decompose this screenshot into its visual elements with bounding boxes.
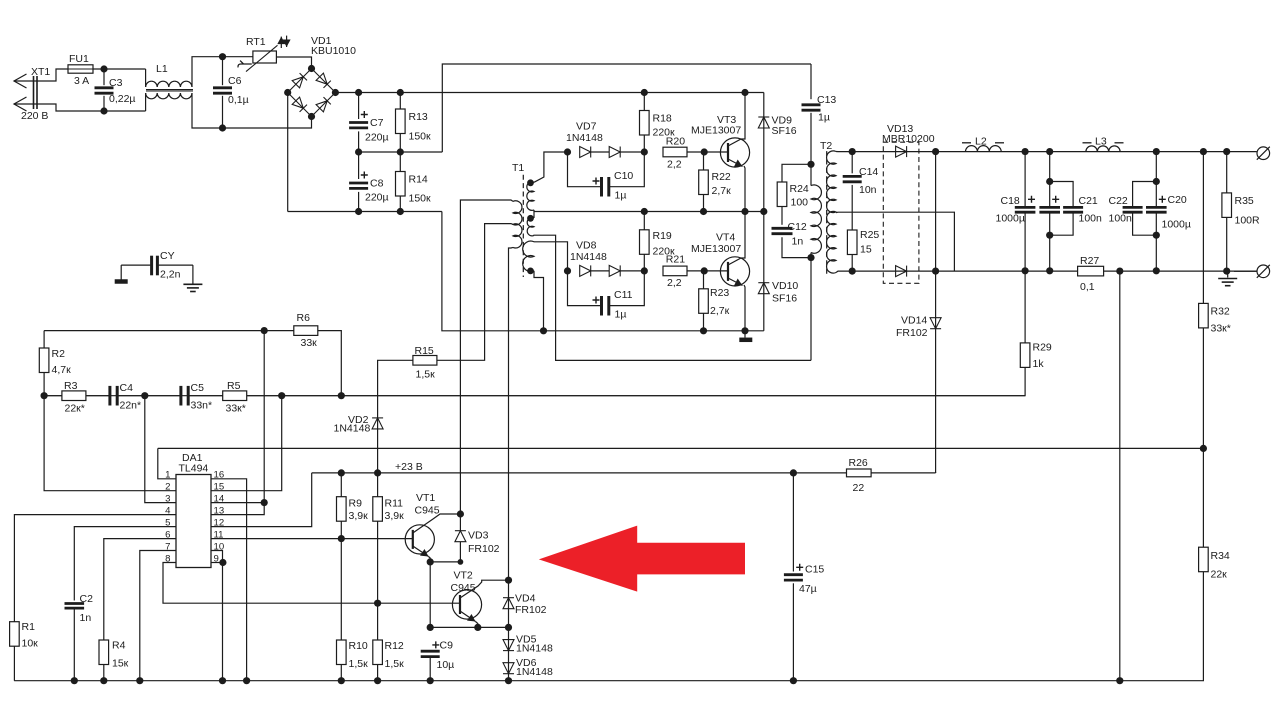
wire pin11 to VT1 base xyxy=(211,538,412,540)
wire VT2 emitter arrow xyxy=(460,611,476,622)
earth ground output xyxy=(1218,279,1237,286)
junction C4 C5 pin3 xyxy=(141,392,148,399)
wire pin13 xyxy=(211,503,264,515)
svg-text:1k: 1k xyxy=(1033,358,1045,370)
wire ground stub xyxy=(744,331,746,338)
svg-text:VD4: VD4 xyxy=(515,593,536,605)
wire pin14 xyxy=(211,502,264,504)
wire R9 bottom lead xyxy=(340,521,342,538)
diode VD8a xyxy=(580,265,591,276)
junction R22 bottom xyxy=(700,208,707,215)
junction C14 top xyxy=(849,148,856,155)
wire node to C5 xyxy=(145,395,181,397)
svg-text:RT1: RT1 xyxy=(246,36,266,48)
svg-text:C7: C7 xyxy=(370,117,384,129)
transistor VT3 xyxy=(720,138,749,167)
wire C13 bottom lead xyxy=(810,113,812,165)
capacitor C2 xyxy=(65,604,85,609)
svg-text:L1: L1 xyxy=(156,63,168,75)
svg-text:R4: R4 xyxy=(112,640,126,652)
transistor VT4 xyxy=(720,257,749,286)
svg-text:R2: R2 xyxy=(52,348,66,360)
junction VD13 cathodes bottom xyxy=(932,268,939,275)
connector XT1 bars xyxy=(34,76,38,109)
svg-text:C6: C6 xyxy=(228,75,242,87)
wire pin16 to ground xyxy=(211,479,247,681)
junction R27 sense xyxy=(1116,268,1123,275)
svg-text:SF16: SF16 xyxy=(772,293,797,305)
wire RT1 to bridge top xyxy=(276,57,311,69)
diode VD5 xyxy=(503,640,514,651)
svg-text:1µ: 1µ xyxy=(615,309,627,321)
svg-text:FU1: FU1 xyxy=(69,53,89,65)
junction C19 top xyxy=(1046,148,1053,155)
svg-text:SF16: SF16 xyxy=(772,125,797,137)
diode VD14 xyxy=(930,318,941,329)
thermistor RT1 diagonal xyxy=(246,45,278,71)
svg-text:100R: 100R xyxy=(1235,215,1261,227)
wire VT1 collector xyxy=(413,514,461,533)
wire emitter node rail xyxy=(430,626,508,628)
svg-text:2: 2 xyxy=(165,482,170,493)
wire VD3 bottom lead xyxy=(430,542,460,562)
wire R24 top xyxy=(782,164,811,182)
junction bridge top xyxy=(308,65,315,72)
junction R4 ground xyxy=(100,677,107,684)
wire pin12 to +23V xyxy=(211,473,312,527)
earth ground CY right xyxy=(183,284,202,291)
wire between VD8 diodes xyxy=(591,270,610,272)
wire T1 tap rail y211 xyxy=(534,210,764,212)
capacitor C18 xyxy=(1015,207,1036,212)
svg-text:22к: 22к xyxy=(1211,569,1228,581)
plus sign C15 xyxy=(796,564,803,571)
svg-text:R24: R24 xyxy=(790,183,809,195)
resistor R20 xyxy=(663,147,687,157)
capacitor C15 xyxy=(784,575,803,580)
svg-text:10n: 10n xyxy=(859,184,877,196)
svg-text:C12: C12 xyxy=(788,221,807,233)
junction R32 top xyxy=(1200,148,1207,155)
svg-text:R18: R18 xyxy=(653,113,672,125)
inductor T1 winding B xyxy=(527,218,534,236)
svg-text:XT1: XT1 xyxy=(31,66,50,78)
junction VT3 emitter VT4 collector xyxy=(741,208,748,215)
wire T1 C bottom to ground rail xyxy=(534,271,544,331)
inductor T1 winding C xyxy=(523,241,534,271)
junction R26 C15 xyxy=(790,469,797,476)
wire R2 top lead xyxy=(43,331,45,348)
svg-text:1n: 1n xyxy=(792,236,804,248)
resistor R19 xyxy=(640,230,650,255)
svg-text:R11: R11 xyxy=(385,498,404,510)
svg-text:R26: R26 xyxy=(849,457,868,469)
core T2 dashed xyxy=(826,151,828,274)
svg-text:R22: R22 xyxy=(712,171,731,183)
resistor R11 xyxy=(373,497,383,522)
svg-text:T1: T1 xyxy=(512,162,524,174)
wire pin8 to VT2 base xyxy=(163,563,460,604)
wire R19 top lead xyxy=(643,212,645,230)
core line L1 a xyxy=(146,89,193,91)
wire R12 top lead xyxy=(377,603,379,640)
svg-text:VD7: VD7 xyxy=(576,121,597,133)
svg-text:33к*: 33к* xyxy=(1211,323,1231,335)
capacitor CY xyxy=(152,256,158,276)
junction feedback divider xyxy=(1200,445,1207,452)
junction C20 top xyxy=(1153,148,1160,155)
capacitor C14 xyxy=(843,176,862,181)
svg-text:2,7к: 2,7к xyxy=(712,185,732,197)
wire T1 primary tap to R15 xyxy=(437,224,513,361)
thermistor RT1 t-mark xyxy=(238,61,252,68)
wire C7 top lead xyxy=(358,93,360,120)
capacitor C9 xyxy=(421,651,440,656)
junction R11 R12 VT2 base xyxy=(374,600,381,607)
svg-text:10µ: 10µ xyxy=(437,659,455,671)
junction bridge right xyxy=(332,89,339,96)
junction pin16 ground xyxy=(243,677,250,684)
svg-text:3 A: 3 A xyxy=(74,75,89,87)
svg-text:2,2: 2,2 xyxy=(667,277,682,289)
core T1 dashed xyxy=(522,175,524,277)
wire output plus rail xyxy=(836,151,1257,153)
svg-text:R25: R25 xyxy=(860,229,879,241)
wire VT3 base lead xyxy=(704,151,728,153)
svg-text:L3: L3 xyxy=(1095,136,1107,148)
wire VD4 VD5 VD6 branch xyxy=(508,580,510,681)
wire C21 top bracket xyxy=(1050,182,1073,207)
resistor R14 xyxy=(396,172,406,197)
wire VT3 collector xyxy=(728,93,745,147)
wire XT1 top to FU1 xyxy=(14,69,68,81)
diode VD8b xyxy=(609,265,620,276)
junction VT3 collector rail xyxy=(741,89,748,96)
svg-text:13: 13 xyxy=(214,506,225,517)
wire C14 top lead xyxy=(851,152,853,174)
svg-text:C20: C20 xyxy=(1168,194,1187,206)
bridge diode VD1b xyxy=(316,73,331,88)
resistor R25 xyxy=(847,230,857,255)
svg-text:R32: R32 xyxy=(1211,306,1230,318)
inductor L1 top winding xyxy=(146,81,192,87)
wire R2 bottom lead xyxy=(43,373,45,396)
svg-text:33к*: 33к* xyxy=(226,403,246,415)
core mark L2 right xyxy=(995,142,1004,144)
svg-text:C15: C15 xyxy=(805,564,824,576)
wire CY left xyxy=(121,264,150,266)
wire T1 primary bottom to VT2 collector node xyxy=(509,247,514,580)
junction R35 bottom xyxy=(1223,268,1230,275)
wire pin4 to R1 xyxy=(14,515,176,622)
wire C22 top bracket xyxy=(1133,182,1157,207)
wire VT1 emitter down xyxy=(429,557,431,562)
inductor T2 secondary xyxy=(827,151,836,273)
connector XT1 arrows xyxy=(14,74,27,111)
resistor R18 xyxy=(640,111,650,136)
svg-text:22: 22 xyxy=(853,482,865,494)
svg-text:T2: T2 xyxy=(820,140,832,152)
capacitor C6 xyxy=(213,88,232,93)
capacitor C13 xyxy=(802,105,821,110)
junction C22 bottom xyxy=(1153,232,1160,239)
wire VD13 cathode link xyxy=(935,152,937,272)
wire R22 top lead xyxy=(703,152,705,170)
diode VD10 xyxy=(758,283,769,294)
junction R35 top xyxy=(1223,148,1230,155)
capacitor C7 xyxy=(349,123,368,128)
svg-text:C4: C4 xyxy=(120,382,134,394)
wire output minus rail right xyxy=(1104,270,1257,272)
wire R11 top lead xyxy=(377,473,379,497)
resistor R3 xyxy=(62,391,86,401)
svg-text:1N4148: 1N4148 xyxy=(570,251,607,263)
svg-text:R6: R6 xyxy=(297,312,311,324)
core mark L3 left xyxy=(1083,142,1092,144)
svg-text:R23: R23 xyxy=(710,287,729,299)
phasing dot T1 A xyxy=(527,179,534,186)
wire ground stub R35 xyxy=(1227,271,1229,277)
wire R13 top lead xyxy=(399,93,401,110)
wire output minus rail left xyxy=(836,271,1078,272)
svg-text:R15: R15 xyxy=(415,345,434,357)
wire R15 to VD2 to +23V xyxy=(378,360,413,473)
svg-text:R21: R21 xyxy=(666,254,685,266)
junction R14 bottom xyxy=(397,208,404,215)
svg-text:1N4148: 1N4148 xyxy=(516,643,553,655)
junction C7 top xyxy=(355,89,362,96)
capacitor C4 xyxy=(110,386,117,406)
resistor R10 xyxy=(337,640,347,665)
core line L1 b xyxy=(146,90,193,92)
wire VD7 to R20 node xyxy=(620,151,644,153)
wire between VD7 diodes xyxy=(591,151,610,153)
svg-text:C8: C8 xyxy=(370,178,384,190)
junction C9 top xyxy=(427,624,434,631)
wire pin5 to C2 xyxy=(74,527,176,601)
resistor R32 xyxy=(1199,303,1209,328)
svg-text:R29: R29 xyxy=(1033,342,1052,354)
junction T1 return on ground rail xyxy=(540,327,547,334)
wire R24 to C12 xyxy=(781,207,783,225)
svg-text:1N4148: 1N4148 xyxy=(566,132,603,144)
wire R5 right xyxy=(247,395,342,397)
junction C8 bottom xyxy=(355,208,362,215)
wire C7 bottom lead xyxy=(358,131,360,152)
wire R20 to VT3 base xyxy=(687,151,704,153)
wire C19 top lead xyxy=(1049,152,1051,207)
wire C21 bottom bracket xyxy=(1050,213,1073,235)
wire C22 bottom bracket xyxy=(1133,213,1157,235)
fuse FU1 xyxy=(68,65,93,73)
wire FU1 to L1 top xyxy=(93,68,146,70)
svg-text:2,7к: 2,7к xyxy=(710,305,730,317)
wire through fuse FU1 xyxy=(68,68,93,70)
wire pin9 to ground xyxy=(222,563,224,681)
wire to R6 xyxy=(264,330,294,332)
svg-text:C945: C945 xyxy=(451,582,476,594)
junction C21 top xyxy=(1046,178,1053,185)
chassis ground primary xyxy=(739,338,752,343)
wire R14 top lead xyxy=(399,152,401,172)
junction C21 bottom xyxy=(1046,232,1053,239)
svg-text:C13: C13 xyxy=(817,94,836,106)
wire VT1 emitter arrow xyxy=(413,546,429,557)
IC DA1 TL494 body xyxy=(176,475,211,568)
junction VT3 base xyxy=(701,148,708,155)
svg-text:R19: R19 xyxy=(653,230,672,242)
resistor R22 xyxy=(699,170,709,195)
wire R11 bottom lead xyxy=(377,521,379,603)
wire VT3 emitter down xyxy=(744,166,745,212)
resistor R15 xyxy=(413,356,437,366)
wire R35 top lead xyxy=(1226,152,1228,193)
svg-text:1,5к: 1,5к xyxy=(385,658,405,670)
wire XT1 bottom rail xyxy=(14,104,146,111)
junction bridge left xyxy=(284,89,291,96)
bridge VD1 diamond xyxy=(288,69,336,117)
wire pin1 to feedback rail xyxy=(158,448,176,478)
svg-text:3: 3 xyxy=(165,494,170,505)
wire VT4 collector xyxy=(728,212,745,266)
svg-text:C945: C945 xyxy=(415,505,440,517)
red arrow annotation xyxy=(539,526,745,592)
wire VD8 to R21 node xyxy=(620,270,644,272)
junction C2 ground xyxy=(71,677,78,684)
svg-text:VD3: VD3 xyxy=(468,530,489,542)
junction VT1 emitter xyxy=(427,558,434,565)
bridge diode VD1d xyxy=(316,97,331,112)
resistor R4 xyxy=(99,640,109,665)
svg-text:22к*: 22к* xyxy=(65,403,85,415)
junction pin9 xyxy=(219,559,226,566)
svg-text:10к: 10к xyxy=(22,638,39,650)
svg-text:1n: 1n xyxy=(80,612,92,624)
junction VD6 ground xyxy=(505,677,512,684)
resistor R2 xyxy=(39,348,49,373)
diode VD13b xyxy=(896,266,907,277)
wire R22 bottom lead xyxy=(703,195,705,212)
svg-text:C9: C9 xyxy=(440,640,454,652)
junction VT2 emitter xyxy=(474,624,481,631)
inductor T2 primary xyxy=(811,185,821,253)
svg-text:1µ: 1µ xyxy=(818,112,830,124)
svg-text:220µ: 220µ xyxy=(365,192,389,204)
wire VT2 collector xyxy=(460,580,509,598)
resistor R1 xyxy=(10,622,20,647)
wire C18 bottom lead xyxy=(1024,213,1026,271)
wire pin9 xyxy=(211,562,223,564)
wire VT2 emitter down xyxy=(476,622,478,628)
junction bridge bottom xyxy=(308,113,315,120)
junction R9 R10 pin11 xyxy=(338,535,345,542)
wire primary ground rail y330 xyxy=(442,212,764,331)
wire C15 bottom lead xyxy=(792,583,794,680)
wire bottom rail xyxy=(14,572,1203,681)
diode VD4 xyxy=(503,598,514,609)
bridge diode VD1c xyxy=(292,97,307,112)
svg-text:C10: C10 xyxy=(614,170,633,182)
wire R29 top branch xyxy=(1024,271,1026,343)
wire R35 bottom lead xyxy=(1226,217,1228,271)
capacitor C11 plates xyxy=(602,296,609,316)
wire C8 bottom lead xyxy=(358,192,360,212)
wire R12 bottom lead xyxy=(377,665,379,681)
inductor L1 bottom winding xyxy=(146,93,192,99)
svg-text:100n: 100n xyxy=(1109,213,1133,225)
junction VD2 R11 xyxy=(374,469,381,476)
plus sign C18 xyxy=(1028,196,1035,203)
wire C2 bottom lead xyxy=(73,608,75,681)
junction R12 ground xyxy=(374,677,381,684)
junction VD4 VD5 xyxy=(505,624,512,631)
svg-text:R5: R5 xyxy=(227,380,241,392)
svg-text:15к: 15к xyxy=(112,658,129,670)
svg-text:3,9к: 3,9к xyxy=(349,510,369,522)
wire L1 top-right to RT1 xyxy=(192,57,253,87)
wire R23 top lead xyxy=(703,271,705,289)
svg-text:FR102: FR102 xyxy=(515,604,547,616)
svg-text:1000µ: 1000µ xyxy=(1162,219,1191,231)
junction VD8 anode xyxy=(564,267,571,274)
junction C7 C8 xyxy=(355,148,362,155)
svg-text:C2: C2 xyxy=(80,593,94,605)
svg-text:R10: R10 xyxy=(349,640,368,652)
capacitor C5 xyxy=(181,386,188,406)
wire midpoint up to C13 rail xyxy=(442,64,811,152)
junction R9 top xyxy=(338,469,345,476)
svg-text:220 В: 220 В xyxy=(21,110,48,122)
wire CY right xyxy=(159,264,193,266)
wire R26 to VD14 xyxy=(871,472,936,474)
junction pins 13 14 xyxy=(261,499,268,506)
wire VT4 base lead xyxy=(704,270,728,272)
diode VD13a xyxy=(896,146,907,157)
svg-text:150к: 150к xyxy=(409,193,432,205)
svg-text:VT4: VT4 xyxy=(716,232,735,244)
wire C19 bottom lead xyxy=(1049,213,1051,271)
resistor R6 xyxy=(294,326,318,336)
diode VD2 xyxy=(372,418,383,429)
wire R6 rail left xyxy=(44,330,264,332)
plus sign C19 xyxy=(1052,196,1059,203)
svg-text:1N4148: 1N4148 xyxy=(334,423,371,435)
svg-text:FR102: FR102 xyxy=(468,543,500,555)
svg-text:1,5к: 1,5к xyxy=(349,658,369,670)
wire T1 primary top to VT1 collector node xyxy=(460,200,513,514)
junction C20 bottom xyxy=(1153,267,1160,274)
svg-text:VT1: VT1 xyxy=(416,492,435,504)
junction R18 bottom xyxy=(641,148,648,155)
wire R14 bottom lead xyxy=(399,196,401,212)
wire C14 to R25 xyxy=(851,185,853,230)
arrow down RT1 xyxy=(283,36,291,47)
phasing dot T1 B xyxy=(527,215,534,222)
wire VD14 branch xyxy=(935,271,937,473)
wire R25 bottom lead xyxy=(851,255,853,272)
svg-text:33n*: 33n* xyxy=(191,400,213,412)
wire C12 bottom xyxy=(782,237,811,257)
plus sign C20 xyxy=(1159,196,1166,203)
wire VD9 branch xyxy=(763,93,765,212)
wire T2 primary bottom lead xyxy=(810,253,812,361)
junction C19 bottom xyxy=(1046,267,1053,274)
wire C3 bottom lead xyxy=(103,96,105,111)
svg-text:R13: R13 xyxy=(409,111,428,123)
svg-text:VD14: VD14 xyxy=(901,315,927,327)
diode VD9 xyxy=(758,117,769,128)
wire C5 to R5 xyxy=(188,395,223,397)
